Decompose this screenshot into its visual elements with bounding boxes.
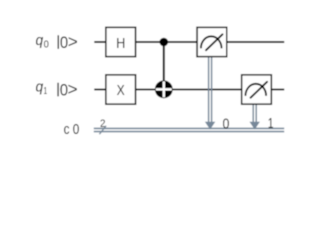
- svg-text:q: q: [36, 80, 44, 96]
- measure gate M1: [242, 75, 272, 104]
- measure gate M0: [197, 27, 227, 56]
- classical wire c (double line): [94, 127, 284, 129]
- svg-text:1: 1: [44, 86, 48, 97]
- creg slash: [99, 126, 106, 134]
- label q1: [36, 79, 78, 99]
- svg-text:H: H: [116, 36, 125, 52]
- gate X: [106, 75, 136, 104]
- measure arrow to c1 (double line + arrowhead): [250, 105, 260, 130]
- svg-text:>: >: [68, 79, 78, 99]
- wire q1: [94, 89, 284, 91]
- label q0: [36, 32, 78, 52]
- wire cx vertical: [163, 42, 165, 89]
- svg-text:1: 1: [268, 115, 274, 132]
- svg-text:q: q: [36, 33, 44, 49]
- cnot target q1: [155, 80, 173, 98]
- svg-text:>: >: [68, 32, 78, 52]
- measure arrow to c0 (double line + arrowhead): [205, 57, 215, 130]
- wire q0: [94, 41, 284, 43]
- gate H: [106, 27, 136, 56]
- control dot q0: [160, 38, 169, 47]
- svg-text:0: 0: [44, 40, 50, 51]
- svg-text:0: 0: [223, 115, 230, 132]
- svg-text:c 0: c 0: [64, 122, 80, 138]
- svg-text:X: X: [117, 83, 125, 99]
